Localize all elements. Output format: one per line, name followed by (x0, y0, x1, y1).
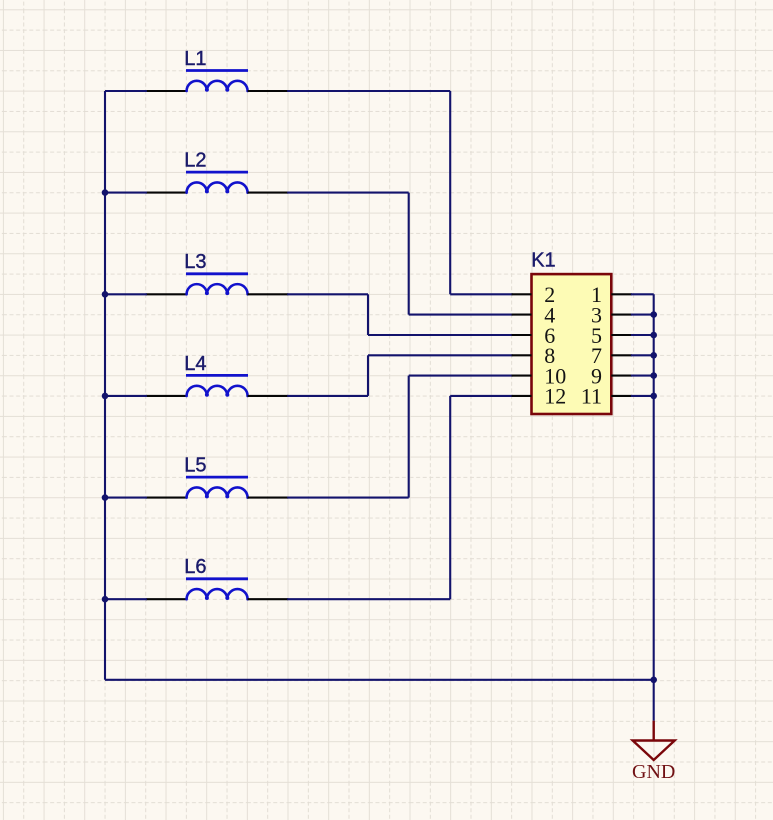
connector K1 body (532, 274, 612, 414)
ground GND (632, 721, 675, 783)
wire: left bus to L1 (105, 90, 147, 92)
junction on right bus (650, 311, 657, 318)
coil junction dots L5 (205, 494, 209, 498)
wire: K1 pin 3 to right bus (631, 314, 654, 316)
wire: L4 vertical riser (367, 355, 369, 396)
svg-text:GND: GND (632, 761, 675, 783)
inductor L4 (146, 353, 288, 397)
wire: L6 vertical riser (449, 396, 451, 599)
ground triangle (633, 741, 675, 761)
coil junction dots L2 (205, 189, 209, 193)
K1 pin 12 lead (512, 395, 532, 397)
designator underline L6 (186, 577, 248, 580)
wire: left bus to L5 (105, 497, 147, 499)
junction on right bus (650, 372, 657, 379)
coil junction dots L6 (205, 596, 209, 600)
wire: L1 vertical riser (449, 91, 451, 294)
wire: L4 output horizontal (287, 395, 368, 397)
pin 2 of L2 (248, 192, 289, 194)
wire: L3 output horizontal (287, 293, 368, 295)
junction on right bus (650, 332, 657, 339)
wire: L5 output horizontal (287, 497, 409, 499)
svg-text:12: 12 (544, 384, 566, 409)
coil arcs L1 (187, 81, 248, 91)
K1 pin 7 lead (611, 354, 632, 356)
svg-text:L3: L3 (184, 251, 206, 273)
wire: to K1 pin 8 (368, 354, 513, 356)
pin 2 of L4 (248, 395, 289, 397)
pin 2 of L3 (248, 293, 289, 295)
svg-text:L1: L1 (184, 48, 206, 70)
K1 pin 5 lead (611, 334, 632, 336)
svg-text:L6: L6 (184, 556, 206, 578)
K1 pin 6 lead (512, 334, 532, 336)
designator underline L5 (186, 476, 248, 479)
pin 1 of L2 (146, 192, 187, 194)
wire: L5 vertical riser (408, 376, 410, 498)
junction on right bus (650, 352, 657, 359)
coil arcs L3 (187, 284, 248, 294)
pin 2 of L1 (248, 90, 289, 92)
designator underline L2 (186, 171, 248, 174)
coil junction dots L4 (205, 393, 209, 397)
pin 1 of L1 (146, 90, 187, 92)
K1 pin 10 lead (512, 375, 532, 377)
K1 pin 3 lead (611, 314, 632, 316)
K1 pin 8 lead (512, 354, 532, 356)
junction on left bus (102, 494, 109, 501)
svg-text:K1: K1 (531, 250, 555, 272)
K1 pin 11 lead (611, 395, 632, 397)
ground stem (653, 721, 655, 741)
pin 1 of L5 (146, 497, 187, 499)
wire: left bus to L4 (105, 395, 147, 397)
wire: L1 output horizontal (287, 90, 450, 92)
pin 1 of L3 (146, 293, 187, 295)
junction on left bus (102, 189, 109, 196)
svg-text:L4: L4 (184, 353, 206, 375)
wire: K1 pin 1 to right bus (631, 293, 654, 295)
designator underline L1 (186, 69, 248, 72)
wire: to K1 pin 10 (409, 375, 513, 377)
wire: bottom return (105, 679, 654, 681)
junction on left bus (102, 393, 109, 400)
inductor L2 (146, 149, 288, 193)
wire: to K1 pin 6 (368, 334, 513, 336)
wire: K1 pin 5 to right bus (631, 334, 654, 336)
svg-text:11: 11 (581, 384, 602, 409)
svg-text:L5: L5 (184, 454, 206, 476)
wire: left vertical bus (104, 91, 106, 680)
K1 pin 1 lead (611, 293, 632, 295)
wire: left bus to L6 (105, 598, 147, 600)
junction: bottom wire / right bus (650, 677, 657, 684)
inductor L3 (146, 251, 288, 295)
inductor L6 (146, 556, 288, 600)
coil junction dots L3 (205, 291, 209, 295)
pin 2 of L6 (248, 598, 289, 600)
wire: to K1 pin 2 (450, 293, 512, 295)
wire: K1 pin 7 to right bus (631, 354, 654, 356)
pin 2 of L5 (248, 497, 289, 499)
coil arcs L6 (187, 589, 248, 599)
wire: L2 vertical riser (408, 193, 410, 315)
pin 1 of L4 (146, 395, 187, 397)
K1 pin 4 lead (512, 314, 532, 316)
wire: K1 pin 11 to right bus (631, 395, 654, 397)
coil junction dots L1 (205, 88, 209, 92)
wire: left bus to L2 (105, 192, 147, 194)
junction on right bus (650, 393, 657, 400)
wire: right vertical bus (653, 294, 655, 720)
svg-text:L2: L2 (184, 149, 206, 171)
inductor L5 (146, 454, 288, 498)
junction on left bus (102, 291, 109, 298)
coil arcs L4 (187, 386, 248, 396)
wire: L2 output horizontal (287, 192, 409, 194)
pin 1 of L6 (146, 598, 187, 600)
wire: left bus to L3 (105, 293, 147, 295)
designator underline L4 (186, 374, 248, 377)
K1 pin 2 lead (512, 293, 532, 295)
wire: L3 vertical riser (367, 294, 369, 335)
wire: K1 pin 9 to right bus (631, 375, 654, 377)
wire: L6 output horizontal (287, 598, 450, 600)
wire: to K1 pin 12 (450, 395, 512, 397)
coil arcs L5 (187, 487, 248, 497)
coil arcs L2 (187, 182, 248, 192)
junction on left bus (102, 596, 109, 603)
designator underline L3 (186, 272, 248, 275)
inductor L1 (146, 48, 288, 92)
wire: to K1 pin 4 (409, 314, 513, 316)
K1 pin 9 lead (611, 375, 632, 377)
